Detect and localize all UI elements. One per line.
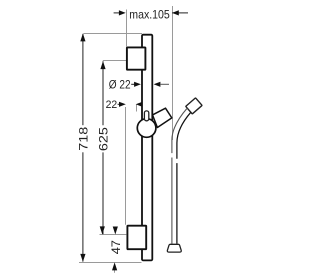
hose right edge xyxy=(177,112,191,244)
dimension 22 line left xyxy=(118,103,121,105)
extension line: 22 right xyxy=(136,105,138,112)
arrowhead 22 right (points left) xyxy=(136,102,143,107)
dimension Ø22 line right xyxy=(160,83,169,85)
arrowhead 22 left (points right at wall line) xyxy=(119,102,126,107)
extension line: bottom of bar xyxy=(79,262,142,264)
svg-text:47: 47 xyxy=(109,240,123,255)
label 718 xyxy=(76,126,90,150)
dimension Ø22 line left xyxy=(131,83,135,85)
hose connector nut xyxy=(186,98,202,114)
slider body circle xyxy=(137,119,156,138)
extension line: bottom mount centre xyxy=(100,234,127,236)
top wall mount xyxy=(127,47,145,69)
extension line: wall plane upper (max.105 left) xyxy=(126,10,128,47)
hose left edge xyxy=(172,108,187,244)
arrowhead Ø22 left (points right at bar) xyxy=(134,82,141,87)
holder arm (behind circle) xyxy=(153,108,172,127)
hose end cone xyxy=(167,244,181,252)
extension line: top mount centre (625 top) xyxy=(103,60,127,62)
arrowhead 47 bottom (points up at bar-end line) xyxy=(112,262,117,270)
bottom wall mount xyxy=(127,226,146,250)
dimension 625 line xyxy=(102,61,104,125)
svg-text:718: 718 xyxy=(76,126,90,150)
extension line: top of bar (718 top) xyxy=(83,33,142,35)
label 625 xyxy=(96,127,110,151)
arrowhead max.105 left xyxy=(119,10,126,15)
arrowhead 718 top xyxy=(80,33,85,41)
dimension max.105 line right xyxy=(172,12,188,14)
arrowhead 625 top xyxy=(100,61,105,69)
arrowhead 47 top (points down at mount line) xyxy=(113,227,118,235)
arrowhead 718 bottom xyxy=(80,254,85,262)
arrowhead 625 bottom xyxy=(100,226,105,234)
svg-text:Ø 22: Ø 22 xyxy=(109,78,131,91)
svg-text:625: 625 xyxy=(96,127,110,151)
svg-text:max.105: max.105 xyxy=(129,8,170,22)
arrowhead Ø22 right (points left at bar) xyxy=(154,82,161,87)
extension line: wall plane lower xyxy=(125,107,127,225)
wall bar (rail) xyxy=(142,35,152,261)
arrowhead max.105 right xyxy=(172,10,179,15)
dimension 718 line xyxy=(82,34,84,125)
extension line: below 47 arrow xyxy=(114,270,116,273)
extension line: holder outer (max.105 right) xyxy=(172,6,174,140)
dimension max.105 line left xyxy=(114,12,121,14)
slider pin xyxy=(144,111,148,121)
svg-text:22: 22 xyxy=(106,99,118,111)
label 47 xyxy=(109,240,123,255)
